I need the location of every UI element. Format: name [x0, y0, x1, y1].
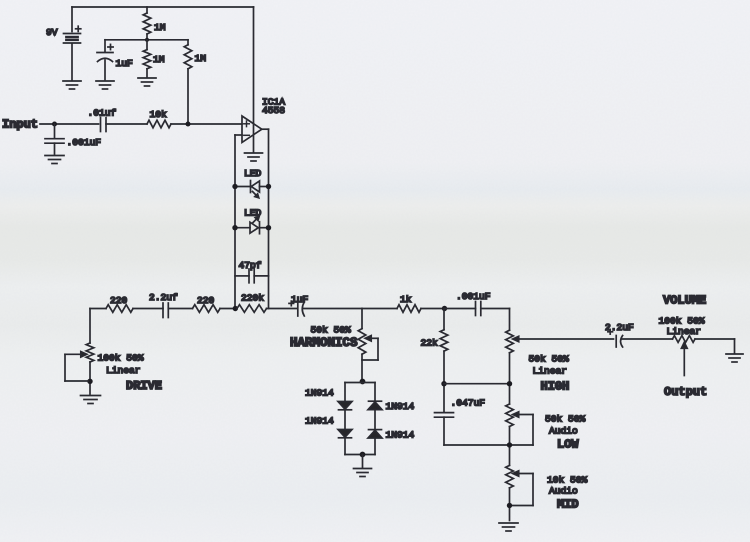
- label VR5 value: [547, 474, 588, 485]
- svg-text:1N914: 1N914: [305, 387, 334, 398]
- wire 9V rail drop to op-amp supply: [253, 7, 255, 152]
- svg-text:1k: 1k: [400, 294, 412, 305]
- label R4 value: [150, 109, 168, 120]
- junction diode network top: [360, 379, 366, 385]
- ground (battery): [63, 81, 81, 89]
- svg-text:2.2uf: 2.2uf: [149, 292, 178, 303]
- label R7 value: [241, 292, 264, 303]
- label U1 designator: [262, 96, 285, 107]
- wire to drive pot: [89, 309, 91, 344]
- potentiometer VR6 100k VOLUME: [673, 336, 696, 343]
- ground (op-amp): [245, 153, 263, 161]
- wire R5 to C5: [133, 308, 163, 310]
- capacitor C6 1uF coupling: [289, 301, 362, 316]
- potentiometer VR5 10k MID: [506, 465, 514, 520]
- label C5 value: [149, 292, 178, 303]
- op-amp U1 IC1A 4558: [242, 116, 262, 142]
- label R9 value: [421, 337, 439, 348]
- diode D5 1N914 (up): [368, 401, 382, 429]
- label R1 value: [154, 22, 166, 33]
- svg-text:HIGH: HIGH: [541, 379, 570, 393]
- wire C8 to low pot: [444, 444, 510, 446]
- label D6 value: [386, 429, 415, 440]
- diode D4 1N914 (down): [338, 430, 352, 455]
- wire C5 to R6: [168, 308, 192, 310]
- capacitor C8 .047uF: [435, 413, 454, 445]
- wire C2 to R4: [106, 123, 147, 125]
- junction tone node: [442, 306, 447, 311]
- label R3 value: [195, 53, 207, 64]
- wire 22k to high pot: [444, 383, 510, 385]
- junction D2 left: [232, 225, 237, 230]
- potentiometer VR3 50k HIGH: [506, 330, 514, 404]
- svg-text:Input: Input: [2, 118, 38, 132]
- wiper VR1: [65, 352, 88, 381]
- svg-text:22k: 22k: [421, 337, 439, 348]
- diode D3 1N914 (down): [338, 402, 352, 430]
- svg-text:Audio: Audio: [549, 485, 578, 496]
- junction low pot bottom: [507, 442, 512, 447]
- svg-text:47pf: 47pf: [239, 260, 262, 271]
- resistor R9 22k: [440, 330, 448, 412]
- ground (tone rail): [499, 523, 518, 531]
- label MID: [557, 497, 579, 511]
- svg-text:100k 50%: 100k 50%: [659, 315, 705, 326]
- label VR2 value: [311, 324, 352, 335]
- wire drive corner: [90, 308, 106, 310]
- wire tone rail top corner: [509, 309, 511, 331]
- label Input: [2, 118, 38, 132]
- label HARMONICS: [290, 336, 358, 350]
- wire volume pot to ground: [695, 339, 735, 353]
- svg-text:VOLUME: VOLUME: [663, 293, 706, 307]
- svg-text:1M: 1M: [153, 54, 165, 65]
- node bias junction: [186, 122, 191, 127]
- wiper VR2: [362, 336, 378, 360]
- junction D1 left: [232, 184, 237, 189]
- LED D1 (points left): [235, 181, 269, 198]
- label HIGH: [541, 379, 570, 393]
- potentiometer VR4 50k LOW: [506, 404, 514, 465]
- label LED2: [244, 207, 262, 218]
- ground (R2): [138, 78, 156, 86]
- wire top supply rail: [72, 6, 254, 8]
- svg-text:10k: 10k: [150, 109, 168, 120]
- wire R4 to op-amp +in: [171, 123, 242, 125]
- label C7 value: [456, 291, 491, 302]
- resistor R5 220: [106, 305, 133, 313]
- capacitor C3 .001uF to ground: [45, 124, 64, 154]
- wire node to C7: [445, 308, 476, 310]
- capacitor C4 47pf: [235, 269, 269, 283]
- svg-text:.01uf: .01uf: [88, 107, 117, 118]
- wire feedback right rail: [268, 129, 270, 308]
- capacitor C9 2.2uF output coupling: [608, 330, 623, 348]
- ground (drive pot): [81, 396, 101, 404]
- wire input line: [40, 123, 99, 125]
- capacitor C7 .001uF: [476, 302, 481, 316]
- label VR6 taper: [667, 326, 702, 337]
- label C9 value: [605, 322, 634, 333]
- svg-text:Linear: Linear: [667, 326, 702, 337]
- svg-text:1uF: 1uF: [291, 294, 309, 305]
- junction supply divider: [145, 38, 149, 42]
- potentiometer VR1 100k DRIVE: [86, 343, 94, 394]
- label VR3 taper: [533, 365, 568, 376]
- svg-text:.001uF: .001uF: [67, 137, 102, 148]
- svg-text:1M: 1M: [195, 53, 207, 64]
- wire right diode branch upper: [374, 383, 376, 402]
- label VR1 taper: [106, 365, 141, 376]
- wire node to 22k: [443, 309, 445, 330]
- label Output: [664, 385, 707, 399]
- junction D2 right: [266, 225, 271, 230]
- potentiometer VR2 50k HARMONICS: [358, 329, 366, 382]
- svg-text:1M: 1M: [154, 22, 166, 33]
- ground (1uF filter cap): [96, 81, 114, 89]
- svg-text:2.2uF: 2.2uF: [605, 322, 634, 333]
- wire left diode branch upper: [344, 383, 346, 402]
- label R6 value: [197, 295, 215, 306]
- svg-text:1uF: 1uF: [116, 58, 134, 69]
- wiper VR3 (output tap): [513, 336, 614, 341]
- label D4 value: [305, 415, 334, 426]
- svg-text:220k: 220k: [241, 292, 264, 303]
- wire output node to C6: [267, 308, 298, 310]
- resistor R3 1M: [184, 40, 192, 124]
- label D3 value: [305, 387, 334, 398]
- junction mid pot bottom: [507, 503, 512, 508]
- svg-text:Audio: Audio: [549, 425, 578, 436]
- label VR3 value: [529, 353, 570, 364]
- junction D1 right: [266, 184, 271, 189]
- wire C9 to volume pot: [622, 338, 673, 340]
- label C1 value: [116, 58, 134, 69]
- svg-text:50k 50%: 50k 50%: [311, 324, 352, 335]
- wire to harmonics pot: [361, 309, 363, 329]
- junction 22k bottom: [441, 381, 446, 386]
- label R8 value: [400, 294, 412, 305]
- node input junction: [52, 122, 57, 127]
- svg-text:220: 220: [110, 295, 128, 306]
- wire feedback left rail: [234, 135, 236, 309]
- svg-text:DRIVE: DRIVE: [126, 379, 162, 393]
- label C3 value: [67, 137, 102, 148]
- resistor R7 220k: [237, 305, 267, 313]
- svg-text:10k 50%: 10k 50%: [547, 474, 588, 485]
- label C4 value: [239, 260, 262, 271]
- label VR4 taper: [549, 425, 578, 436]
- wire R6 to node: [220, 308, 237, 310]
- label VR1 value: [98, 352, 144, 363]
- svg-text:LED: LED: [244, 168, 262, 179]
- svg-text:1N914: 1N914: [386, 429, 415, 440]
- junction diode network bottom: [360, 452, 366, 458]
- resistor R2 1M: [143, 40, 151, 77]
- svg-text:1N914: 1N914: [305, 415, 334, 426]
- svg-text:50k 50%: 50k 50%: [545, 413, 586, 424]
- svg-text:4558: 4558: [262, 105, 285, 116]
- label LED1: [244, 168, 262, 179]
- svg-text:1N914: 1N914: [386, 401, 415, 412]
- label C6 value: [291, 294, 309, 305]
- wiper VR6 (output): [681, 342, 687, 375]
- label VR6 value: [659, 315, 705, 326]
- svg-text:HARMONICS: HARMONICS: [290, 336, 358, 350]
- junction drive pot bottom: [87, 379, 92, 384]
- battery B1 9V: [64, 7, 81, 81]
- wire C7 to tone rail: [481, 308, 510, 310]
- capacitor C1 1uF supply filter: [97, 44, 113, 79]
- svg-text:Linear: Linear: [533, 365, 568, 376]
- wire -in to feedback rail: [235, 134, 242, 136]
- wire to ground (diodes): [362, 455, 364, 468]
- svg-text:Output: Output: [664, 385, 707, 399]
- ground (volume pot): [726, 354, 743, 362]
- label battery voltage: [46, 27, 58, 38]
- resistor R4 10k: [147, 120, 171, 128]
- label LOW: [557, 437, 579, 451]
- label C2 value: [88, 107, 117, 118]
- wiper VR4: [511, 412, 533, 445]
- label VOLUME: [663, 293, 706, 307]
- label VR5 taper: [549, 485, 578, 496]
- wire supply to filter cap corner: [105, 40, 188, 52]
- label D5 value: [386, 401, 415, 412]
- capacitor C5 2.2uf: [163, 303, 168, 318]
- label R2 value: [153, 54, 165, 65]
- wire C6 to R8: [362, 308, 397, 310]
- svg-text:100k 50%: 100k 50%: [98, 352, 144, 363]
- svg-text:LOW: LOW: [557, 437, 579, 451]
- label DRIVE: [126, 379, 162, 393]
- label C8 value: [451, 397, 486, 408]
- ground (diode network): [354, 469, 372, 477]
- resistor R8 1k: [397, 305, 421, 313]
- diode D6 1N914 (up): [368, 430, 382, 455]
- svg-text:50k 50%: 50k 50%: [529, 353, 570, 364]
- resistor R6 220: [193, 305, 221, 313]
- wire R8 to node: [421, 308, 445, 310]
- svg-text:220: 220: [197, 295, 215, 306]
- svg-text:.047uF: .047uF: [451, 397, 486, 408]
- LED D2 (points right): [235, 216, 269, 233]
- svg-text:.001uF: .001uF: [456, 291, 491, 302]
- resistor R1 1M: [143, 7, 151, 40]
- svg-text:9V: 9V: [46, 27, 58, 38]
- wire diode branch top: [345, 382, 375, 384]
- wire diode branch bottom: [345, 454, 375, 456]
- label U1 part number: [262, 105, 285, 116]
- svg-text:Linear: Linear: [106, 365, 141, 376]
- label VR4 value: [545, 413, 586, 424]
- capacitor C2 .01uf input coupling: [101, 118, 107, 132]
- ground (C3): [45, 156, 64, 164]
- label R5 value: [110, 295, 128, 306]
- wire op-amp output: [262, 128, 269, 130]
- svg-text:MID: MID: [557, 497, 579, 511]
- junction feedback left node: [233, 306, 238, 311]
- wiper VR5: [511, 471, 533, 506]
- junction high pot bottom: [507, 381, 512, 386]
